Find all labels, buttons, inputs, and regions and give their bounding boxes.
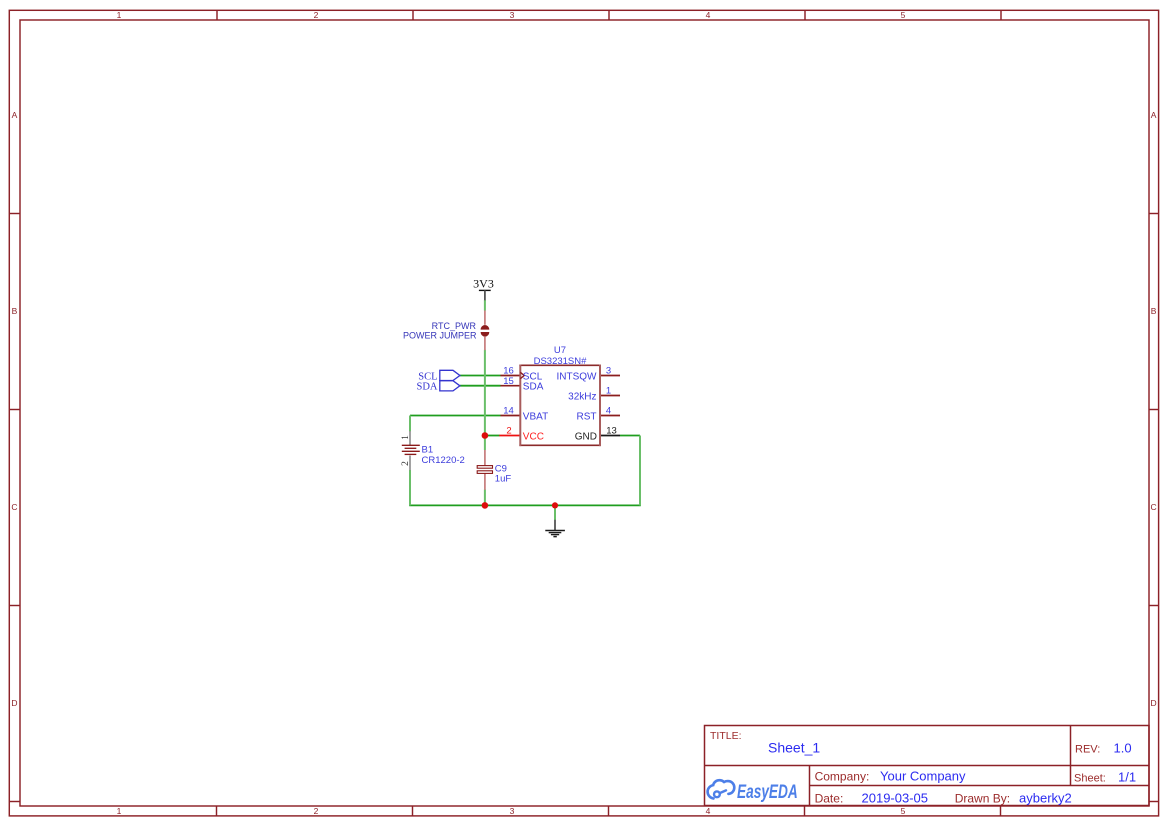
svg-text:2019-03-05: 2019-03-05 bbox=[862, 790, 929, 805]
svg-text:1/1: 1/1 bbox=[1118, 770, 1136, 785]
svg-text:1: 1 bbox=[117, 10, 122, 20]
svg-text:3: 3 bbox=[510, 806, 515, 816]
svg-text:Sheet_1: Sheet_1 bbox=[768, 739, 820, 755]
svg-text:1: 1 bbox=[401, 435, 411, 440]
svg-text:Sheet:: Sheet: bbox=[1074, 773, 1106, 785]
svg-text:2: 2 bbox=[401, 461, 411, 466]
svg-text:4: 4 bbox=[606, 406, 611, 417]
svg-text:3V3: 3V3 bbox=[473, 276, 494, 290]
svg-text:REV:: REV: bbox=[1075, 744, 1100, 756]
svg-text:1.0: 1.0 bbox=[1114, 741, 1132, 756]
svg-text:SDA: SDA bbox=[416, 382, 437, 393]
svg-text:INTSQW: INTSQW bbox=[557, 371, 598, 382]
svg-text:D: D bbox=[11, 698, 17, 708]
svg-text:5: 5 bbox=[901, 806, 906, 816]
svg-text:Date:: Date: bbox=[815, 791, 844, 805]
svg-text:ayberky2: ayberky2 bbox=[1019, 790, 1072, 805]
svg-text:Company:: Company: bbox=[815, 769, 870, 783]
svg-text:1uF: 1uF bbox=[495, 473, 512, 484]
svg-text:32kHz: 32kHz bbox=[568, 391, 596, 402]
svg-text:Drawn By:: Drawn By: bbox=[955, 791, 1010, 805]
svg-text:4: 4 bbox=[706, 806, 711, 816]
svg-text:RST: RST bbox=[577, 411, 597, 422]
svg-text:C: C bbox=[11, 502, 17, 512]
svg-text:2: 2 bbox=[314, 806, 319, 816]
svg-text:2: 2 bbox=[506, 426, 511, 437]
svg-text:2: 2 bbox=[314, 10, 319, 20]
svg-text:SCL: SCL bbox=[418, 371, 437, 382]
svg-text:TITLE:: TITLE: bbox=[710, 730, 742, 742]
svg-text:B: B bbox=[1151, 306, 1157, 316]
svg-text:SDA: SDA bbox=[523, 382, 544, 393]
svg-text:U7: U7 bbox=[554, 345, 566, 356]
svg-text:Your Company: Your Company bbox=[880, 769, 966, 784]
svg-text:14: 14 bbox=[503, 406, 514, 417]
svg-text:DS3231SN#: DS3231SN# bbox=[534, 356, 588, 367]
svg-text:13: 13 bbox=[606, 426, 617, 437]
svg-text:VCC: VCC bbox=[523, 431, 544, 442]
svg-text:GND: GND bbox=[575, 431, 597, 442]
svg-text:3: 3 bbox=[510, 10, 515, 20]
svg-text:D: D bbox=[1151, 698, 1157, 708]
svg-text:EasyEDA: EasyEDA bbox=[737, 781, 798, 803]
svg-text:3: 3 bbox=[606, 366, 611, 377]
svg-text:VBAT: VBAT bbox=[523, 411, 548, 422]
svg-text:15: 15 bbox=[503, 376, 514, 387]
svg-text:B: B bbox=[12, 306, 18, 316]
svg-text:4: 4 bbox=[706, 10, 711, 20]
svg-text:C: C bbox=[1151, 502, 1157, 512]
svg-text:POWER JUMPER: POWER JUMPER bbox=[403, 331, 477, 341]
svg-text:A: A bbox=[1151, 110, 1157, 120]
svg-text:B1: B1 bbox=[422, 445, 434, 456]
svg-text:CR1220-2: CR1220-2 bbox=[422, 455, 465, 466]
svg-text:A: A bbox=[12, 110, 18, 120]
svg-text:1: 1 bbox=[606, 386, 611, 397]
svg-text:5: 5 bbox=[901, 10, 906, 20]
svg-text:1: 1 bbox=[117, 806, 122, 816]
